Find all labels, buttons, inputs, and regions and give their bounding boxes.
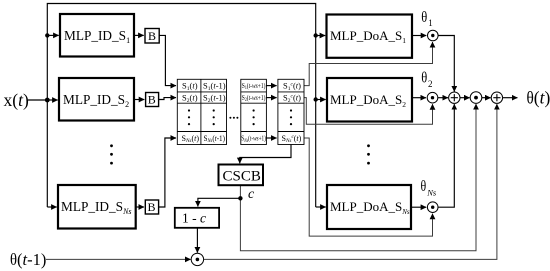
svg-text:B: B bbox=[148, 29, 156, 43]
svg-text:CSCB: CSCB bbox=[223, 169, 261, 185]
svg-text:MLP_ID_S2: MLP_ID_S2 bbox=[63, 92, 129, 109]
svg-text:S2c(t): S2c(t) bbox=[283, 92, 301, 104]
svg-text:S2(t-1): S2(t-1) bbox=[203, 92, 226, 104]
svg-text:MLP_DoA_S1: MLP_DoA_S1 bbox=[330, 28, 406, 45]
svg-text:SNs(t-1): SNs(t-1) bbox=[204, 134, 226, 144]
svg-text:1 - c: 1 - c bbox=[182, 211, 206, 226]
svg-text:S1(t): S1(t) bbox=[182, 81, 198, 93]
svg-text:S2(t): S2(t) bbox=[182, 92, 198, 104]
svg-text:θ1: θ1 bbox=[421, 9, 432, 28]
svg-text:θ(t-1): θ(t-1) bbox=[10, 250, 46, 269]
svg-text:θ2: θ2 bbox=[421, 69, 432, 89]
svg-text:B: B bbox=[148, 93, 156, 107]
svg-text:θNs: θNs bbox=[421, 178, 437, 198]
svg-text:S1c(t): S1c(t) bbox=[283, 81, 301, 93]
svg-text:S1(t-1): S1(t-1) bbox=[203, 81, 226, 93]
svg-text:MLP_ID_S1: MLP_ID_S1 bbox=[64, 28, 130, 45]
svg-text:c: c bbox=[248, 187, 255, 202]
svg-text:θ(t): θ(t) bbox=[527, 88, 550, 108]
svg-text:MLP_DoA_S2: MLP_DoA_S2 bbox=[330, 92, 406, 109]
svg-text:MLP_DoA_SNs: MLP_DoA_SNs bbox=[330, 199, 410, 216]
svg-text:MLP_ID_SNs: MLP_ID_SNs bbox=[61, 199, 132, 216]
svg-text:x(t): x(t) bbox=[4, 90, 29, 110]
svg-text:B: B bbox=[148, 200, 156, 214]
